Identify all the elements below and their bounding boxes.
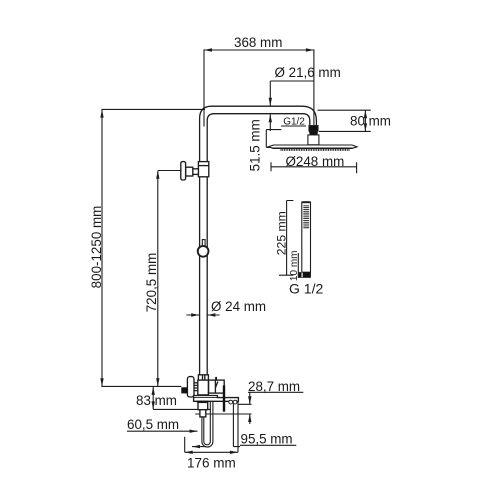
- svg-text:G 1/2: G 1/2: [289, 280, 323, 296]
- svg-text:51.5 mm: 51.5 mm: [248, 119, 263, 171]
- svg-text:Ø 21,6 mm: Ø 21,6 mm: [275, 65, 341, 80]
- svg-text:368 mm: 368 mm: [234, 35, 282, 50]
- svg-text:Ø 24 mm: Ø 24 mm: [211, 299, 266, 314]
- svg-text:80 mm: 80 mm: [350, 114, 391, 129]
- svg-text:60,5 mm: 60,5 mm: [127, 417, 179, 432]
- svg-text:G1/2: G1/2: [283, 117, 305, 128]
- svg-text:95,5 mm: 95,5 mm: [241, 432, 293, 447]
- svg-text:176 mm: 176 mm: [187, 456, 236, 471]
- svg-text:10 mm: 10 mm: [289, 251, 300, 282]
- svg-text:225 mm: 225 mm: [274, 211, 288, 255]
- svg-text:83 mm: 83 mm: [136, 393, 177, 408]
- svg-text:28,7 mm: 28,7 mm: [248, 379, 300, 394]
- svg-text:Ø248 mm: Ø248 mm: [286, 154, 345, 169]
- svg-text:720,5 mm: 720,5 mm: [144, 253, 159, 313]
- svg-text:800-1250 mm: 800-1250 mm: [89, 206, 104, 289]
